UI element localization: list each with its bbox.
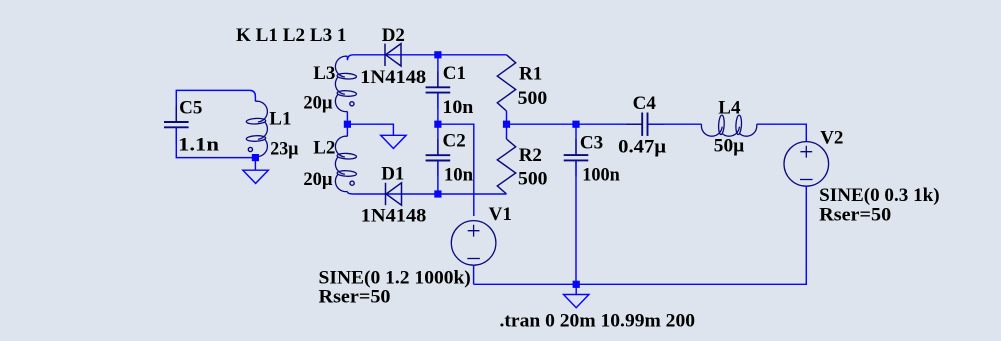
label SINE V1 (319, 267, 471, 288)
svg-text:Rser=50: Rser=50 (319, 287, 391, 308)
wire (176, 90, 249, 122)
label 20u L2 (303, 169, 332, 190)
svg-text:500: 500 (518, 168, 548, 189)
resistor R2 (497, 124, 515, 194)
svg-text:SINE(0 0.3 1k): SINE(0 0.3 1k) (819, 185, 939, 206)
node bottom (573, 281, 580, 288)
svg-text:R2: R2 (519, 145, 542, 166)
svg-text:L2: L2 (313, 137, 335, 158)
wire (353, 54, 506, 56)
capacitor C5 (164, 106, 189, 143)
node C1-C2 (434, 121, 441, 128)
svg-text:L4: L4 (718, 98, 741, 119)
label L3 (313, 63, 335, 84)
label C1 (443, 63, 466, 84)
label 20u L3 (303, 92, 332, 113)
svg-text:500: 500 (518, 88, 548, 109)
directive .tran (500, 311, 696, 332)
svg-text:100n: 100n (582, 165, 620, 186)
inductor L2 (335, 124, 356, 194)
wire (473, 265, 475, 285)
inductor L4 (701, 115, 756, 136)
node D2-C1-R1 (434, 51, 441, 58)
svg-text:SINE(0 1.2 1000k): SINE(0 1.2 1000k) (319, 267, 471, 288)
label 10n C2 (444, 164, 474, 185)
label V1 (489, 204, 512, 225)
source V2 (784, 142, 829, 187)
svg-text:C1: C1 (443, 63, 466, 84)
label 500 R2 (518, 168, 548, 189)
svg-text:L3: L3 (313, 63, 335, 84)
label 50u (714, 136, 745, 157)
svg-text:10n: 10n (442, 97, 473, 118)
svg-text:L1: L1 (269, 108, 291, 129)
wire (347, 124, 393, 135)
capacitor C2 (426, 124, 451, 194)
label 23u (270, 139, 298, 160)
node C2-D1-R2 (434, 190, 441, 197)
svg-text:50µ: 50µ (714, 136, 745, 157)
svg-text:1N4148: 1N4148 (360, 67, 426, 88)
label Rser V2 (819, 205, 891, 226)
svg-text:V2: V2 (820, 128, 843, 149)
svg-text:1N4148: 1N4148 (361, 205, 427, 226)
label V2 (820, 128, 843, 149)
svg-text:K L1 L2 L3 1: K L1 L2 L3 1 (236, 25, 347, 46)
svg-text:R1: R1 (519, 63, 542, 84)
node C3 top (572, 121, 579, 128)
label 0.47u (618, 137, 666, 158)
source V1 (451, 221, 496, 266)
svg-text:1.1n: 1.1n (178, 134, 220, 155)
label D2 (382, 25, 405, 46)
svg-text:C2: C2 (443, 131, 466, 152)
ground (381, 135, 406, 148)
svg-text:C5: C5 (179, 98, 202, 119)
node C5-L1 (252, 154, 259, 161)
wire (353, 193, 506, 195)
inductor L3 (335, 55, 356, 121)
label L2 (313, 137, 335, 158)
label SINE V2 (819, 185, 939, 206)
ground (243, 158, 268, 184)
wire (507, 123, 642, 125)
svg-text:23µ: 23µ (270, 139, 298, 160)
directive K L1 L2 L3 1 (236, 25, 347, 46)
label L4 (718, 98, 741, 119)
svg-text:C3: C3 (580, 133, 603, 154)
label 100n (582, 165, 620, 186)
label R1 (519, 63, 542, 84)
svg-text:.tran 0 20m 10.99m 200: .tran 0 20m 10.99m 200 (500, 311, 696, 332)
label Rser V1 (319, 287, 391, 308)
capacitor C4 (626, 113, 663, 136)
label C3 (580, 133, 603, 154)
node R1-R2 (503, 121, 510, 128)
label L1 (269, 108, 291, 129)
diode D2 (385, 44, 401, 66)
svg-text:D2: D2 (382, 25, 405, 46)
svg-text:10n: 10n (444, 164, 474, 185)
label C5 (179, 98, 202, 119)
svg-text:V1: V1 (489, 204, 512, 225)
label D1 (381, 163, 404, 184)
label 500 R1 (518, 88, 548, 109)
label 10n C1 (442, 97, 473, 118)
svg-text:20µ: 20µ (303, 92, 332, 113)
wire (648, 123, 702, 125)
label C4 (633, 93, 657, 114)
svg-text:D1: D1 (381, 163, 404, 184)
diode D1 (386, 183, 402, 205)
inductor L1 (246, 90, 267, 157)
wire (757, 124, 807, 142)
wire (474, 186, 807, 284)
capacitor C1 (426, 55, 451, 124)
label 1N4148 D2 (360, 67, 426, 88)
wire (176, 128, 255, 158)
resistor R1 (497, 55, 515, 124)
wire (438, 124, 474, 216)
label 1N4148 D1 (361, 205, 427, 226)
capacitor C3 (564, 124, 589, 284)
label C2 (443, 131, 466, 152)
node L3-L2 (344, 121, 351, 128)
svg-text:Rser=50: Rser=50 (819, 205, 891, 226)
ground (564, 284, 589, 307)
svg-text:0.47µ: 0.47µ (618, 137, 666, 158)
svg-text:C4: C4 (633, 93, 657, 114)
label R2 (519, 145, 542, 166)
svg-text:20µ: 20µ (303, 169, 332, 190)
label 1.1n (178, 134, 220, 155)
